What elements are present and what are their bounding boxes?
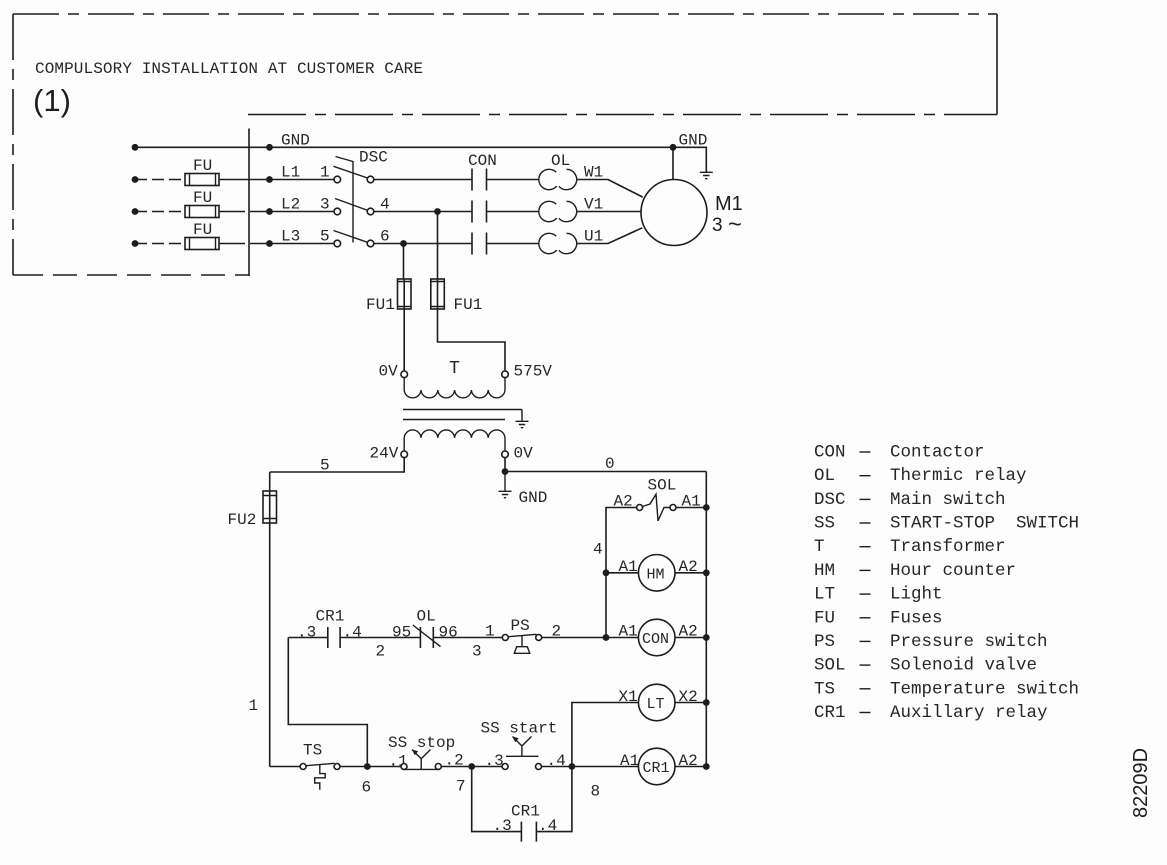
svg-text:L3: L3	[281, 228, 300, 246]
svg-text:A2: A2	[679, 558, 698, 576]
svg-text:FU: FU	[193, 189, 212, 207]
wire start to node 8	[542, 766, 572, 768]
ground symbol core	[516, 421, 529, 427]
wire L3 to contactor	[374, 243, 472, 245]
wire L2 left dashed	[135, 211, 185, 213]
svg-text:4: 4	[593, 541, 603, 559]
dashed enclosure right edge (solid)	[996, 14, 998, 115]
contactor CON contact L1	[472, 169, 539, 191]
wire OL to PS	[433, 637, 502, 639]
contactor CON contact L3	[472, 233, 539, 255]
fuse FU (L3)	[185, 238, 334, 250]
wire motor ground	[673, 147, 706, 179]
svg-text:A2: A2	[614, 493, 633, 511]
wire fuse FU1a to 0V terminal	[403, 309, 405, 371]
legend HM	[814, 561, 1016, 581]
wire 24V to left bus (net 5)	[270, 458, 405, 472]
start button SS	[502, 737, 541, 770]
svg-text:L1: L1	[281, 164, 300, 182]
svg-text:24V: 24V	[370, 445, 399, 463]
svg-text:Fuses: Fuses	[890, 608, 943, 628]
node LT bus	[703, 699, 710, 706]
auxiliary contact CR1	[328, 627, 340, 648]
legend CON	[814, 443, 985, 463]
svg-text:Transformer: Transformer	[890, 537, 1006, 557]
legend PS	[814, 632, 1048, 652]
wire SOL to bus	[676, 507, 706, 509]
svg-text:GND: GND	[519, 489, 548, 507]
svg-text:Light: Light	[890, 585, 943, 605]
svg-text:575V: 575V	[514, 363, 553, 381]
svg-text:T: T	[814, 537, 825, 557]
svg-text:Thermic relay: Thermic relay	[890, 466, 1027, 486]
motor M1	[641, 180, 707, 246]
svg-text:A1: A1	[620, 752, 639, 770]
main switch DSC linkage	[336, 157, 354, 243]
svg-text:X1: X1	[619, 688, 638, 706]
wire CON coil branch	[606, 637, 706, 639]
svg-text:CR1: CR1	[814, 703, 846, 723]
svg-text:95: 95	[392, 624, 411, 642]
thermic relay OL element U1	[539, 233, 577, 253]
wire left bus (net 1)	[269, 472, 271, 767]
pressure switch PS	[502, 634, 541, 653]
wire core earth	[521, 410, 523, 422]
auxiliary contact CR1 holding	[521, 822, 536, 842]
svg-text:3: 3	[320, 196, 330, 214]
wire left bus to TS	[270, 766, 300, 768]
svg-text:A1: A1	[619, 558, 638, 576]
fuse FU2	[263, 491, 277, 523]
wire PS to CON branch	[542, 637, 606, 639]
svg-text:FU1: FU1	[366, 296, 395, 314]
node SOL bus	[703, 504, 710, 511]
svg-text:CR1: CR1	[643, 760, 670, 777]
node 6	[364, 763, 371, 770]
legend OL	[814, 466, 1027, 486]
auxiliary relay coil CR1	[638, 748, 675, 785]
thermic relay OL element V1	[539, 201, 577, 221]
svg-text:L2: L2	[281, 196, 300, 214]
wire L3 left dashed	[135, 243, 185, 245]
svg-text:FU1: FU1	[454, 296, 483, 314]
node L1 left	[132, 176, 139, 183]
svg-text:Contactor: Contactor	[890, 443, 985, 463]
svg-text:3: 3	[472, 643, 482, 661]
wire LT branch	[572, 703, 706, 767]
wire fuse FU1b to 575V terminal	[438, 309, 506, 371]
legend DSC	[814, 490, 1006, 510]
svg-text:5: 5	[320, 457, 330, 475]
svg-text:HM: HM	[647, 567, 665, 584]
dashed enclosure top edge	[13, 13, 997, 15]
svg-text:CR1: CR1	[316, 608, 345, 626]
stop button SS	[401, 750, 441, 770]
wire TS to node 6	[340, 766, 401, 768]
node wire6	[400, 240, 407, 247]
svg-text:Auxillary relay: Auxillary relay	[890, 703, 1048, 723]
svg-text:3 ~: 3 ~	[712, 211, 742, 238]
svg-text:CR1: CR1	[511, 803, 540, 821]
wire SOL branch left vertical	[606, 508, 636, 638]
legend CR1	[814, 703, 1048, 723]
node L2	[266, 208, 273, 215]
light LT	[638, 684, 675, 721]
wire L1 left dashed	[135, 179, 185, 181]
right bus (net 0) vertical	[705, 472, 707, 767]
legend LT	[814, 585, 943, 605]
node L1	[266, 176, 273, 183]
node CON left	[603, 634, 610, 641]
svg-text:HM: HM	[814, 561, 835, 581]
svg-text:GND: GND	[281, 132, 310, 150]
wire CR1 contact lead	[288, 637, 420, 639]
node wire4	[434, 208, 441, 215]
fuse FU (L1)	[185, 174, 334, 186]
svg-text:A2: A2	[679, 752, 698, 770]
svg-text:1: 1	[249, 697, 259, 715]
thermic relay contact OL 95-96	[413, 625, 441, 648]
svg-text:2: 2	[376, 643, 386, 661]
wire holding contact to node 8	[536, 767, 572, 832]
svg-text:OL: OL	[551, 152, 570, 170]
transformer T primary winding	[404, 378, 505, 398]
svg-text:PS: PS	[814, 632, 835, 652]
wire L2 to contactor	[374, 211, 472, 213]
node 7	[468, 763, 475, 770]
svg-text:Main switch: Main switch	[890, 490, 1006, 510]
svg-text:OL: OL	[417, 608, 436, 626]
node CON bus	[703, 634, 710, 641]
svg-text:1: 1	[320, 164, 330, 182]
svg-text:LT: LT	[814, 585, 835, 605]
svg-text:SS stop: SS stop	[388, 734, 455, 752]
svg-text:FU: FU	[193, 157, 212, 175]
svg-text:PS: PS	[511, 617, 530, 635]
wire CR1 contact to TS node	[288, 638, 367, 767]
svg-text:96: 96	[439, 624, 458, 642]
svg-text:TS: TS	[303, 742, 322, 760]
fuse FU1 (right)	[431, 279, 445, 309]
svg-text:.4: .4	[343, 624, 362, 642]
transformer T secondary terminal 24V	[401, 451, 408, 458]
contactor coil CON	[638, 619, 675, 656]
svg-text:Temperature switch: Temperature switch	[890, 679, 1079, 699]
node L2 left	[132, 208, 139, 215]
legend TS	[814, 679, 1079, 699]
dashed enclosure bottom edge	[13, 274, 249, 276]
hour counter HM	[638, 555, 675, 592]
svg-text:CON: CON	[814, 443, 846, 463]
transformer T secondary winding	[404, 430, 505, 451]
svg-text:SOL: SOL	[814, 656, 846, 676]
svg-text:A2: A2	[679, 623, 698, 641]
svg-text:0: 0	[605, 455, 615, 473]
svg-text:FU: FU	[193, 221, 212, 239]
svg-text:SS: SS	[814, 514, 835, 534]
svg-text:OL: OL	[814, 466, 835, 486]
svg-text:6: 6	[362, 779, 372, 797]
ground symbol motor	[700, 172, 713, 178]
svg-text:(1): (1)	[33, 83, 71, 118]
svg-text:5: 5	[320, 228, 330, 246]
svg-text:CON: CON	[642, 631, 669, 648]
legend SOL	[814, 656, 1037, 676]
solenoid valve SOL	[637, 494, 676, 521]
svg-text:SS start: SS start	[481, 720, 558, 738]
temperature switch TS	[300, 763, 340, 790]
thermic relay OL element W1	[539, 169, 577, 189]
svg-text:.3: .3	[485, 752, 504, 770]
node 8	[569, 763, 576, 770]
svg-text:X2: X2	[679, 688, 698, 706]
svg-text:0V: 0V	[379, 363, 399, 381]
wire GND bus	[135, 146, 673, 148]
svg-text:7: 7	[456, 778, 466, 796]
svg-text:START-STOP SWITCH: START-STOP SWITCH	[890, 514, 1079, 534]
svg-text:0V: 0V	[514, 445, 534, 463]
svg-text:T: T	[449, 359, 460, 379]
node L3	[266, 240, 273, 247]
transformer T secondary terminal 0V	[502, 451, 509, 458]
wire L3 node to fuse FU1a	[403, 244, 405, 280]
wire W1 to motor	[577, 180, 643, 198]
svg-text:FU2: FU2	[228, 511, 257, 529]
wire V1 to motor	[577, 211, 641, 213]
svg-text:1: 1	[485, 623, 495, 641]
ground symbol secondary	[499, 491, 512, 497]
svg-text:A1: A1	[619, 623, 638, 641]
node motor GND	[670, 144, 677, 151]
svg-text:FU: FU	[814, 608, 835, 628]
wire 0V secondary to right bus (net 0)	[505, 458, 706, 472]
contactor CON contact L2	[472, 201, 539, 223]
transformer T primary terminal 575V	[502, 371, 509, 378]
wire HM branch	[606, 572, 706, 574]
node GND left	[132, 144, 139, 151]
svg-text:.3: .3	[493, 817, 512, 835]
svg-text:Pressure switch: Pressure switch	[890, 632, 1048, 652]
svg-text:Hour counter: Hour counter	[890, 561, 1016, 581]
DSC pole 3-4	[334, 199, 374, 215]
DSC pole 1-2	[334, 166, 374, 183]
svg-text:Solenoid valve: Solenoid valve	[890, 656, 1037, 676]
svg-text:82209D: 82209D	[1130, 748, 1152, 818]
dashed enclosure left edge	[12, 14, 14, 275]
svg-text:.3: .3	[297, 624, 316, 642]
legend SS	[814, 514, 1079, 534]
wire L1 to contactor	[374, 179, 472, 181]
dashed enclosure inner edge	[248, 114, 997, 116]
wire CR1 coil branch	[572, 766, 706, 768]
svg-text:DSC: DSC	[359, 149, 388, 167]
wire stop to node 7	[441, 766, 502, 768]
transformer T core	[403, 410, 522, 420]
node GND at boundary	[266, 144, 273, 151]
node L3 left	[132, 240, 139, 247]
svg-text:LT: LT	[647, 696, 665, 713]
DSC pole 5-6	[334, 231, 374, 247]
svg-text:TS: TS	[814, 679, 835, 699]
svg-text:DSC: DSC	[814, 490, 846, 510]
node HM bus	[703, 569, 710, 576]
wire L2 node to fuse FU1b	[437, 212, 439, 280]
node CR1 bus	[703, 763, 710, 770]
node secondary 0V	[502, 468, 509, 475]
svg-text:CON: CON	[468, 152, 497, 170]
svg-text:COMPULSORY INSTALLATION AT CUS: COMPULSORY INSTALLATION AT CUSTOMER CARE	[35, 60, 423, 78]
svg-text:8: 8	[591, 783, 601, 801]
boundary solid vertical	[248, 129, 250, 277]
fuse FU (L2)	[185, 206, 334, 218]
svg-text:GND: GND	[679, 132, 708, 150]
wire node7 down to CR1 holding contact	[472, 767, 522, 832]
node HM left	[603, 569, 610, 576]
fuse FU1 (left)	[398, 279, 412, 309]
legend T	[814, 537, 1006, 557]
wire U1 to motor	[577, 228, 643, 244]
wire secondary earth	[504, 472, 506, 492]
transformer T primary terminal 0V	[401, 371, 408, 378]
legend FU	[814, 608, 943, 628]
svg-text:SOL: SOL	[648, 477, 677, 495]
